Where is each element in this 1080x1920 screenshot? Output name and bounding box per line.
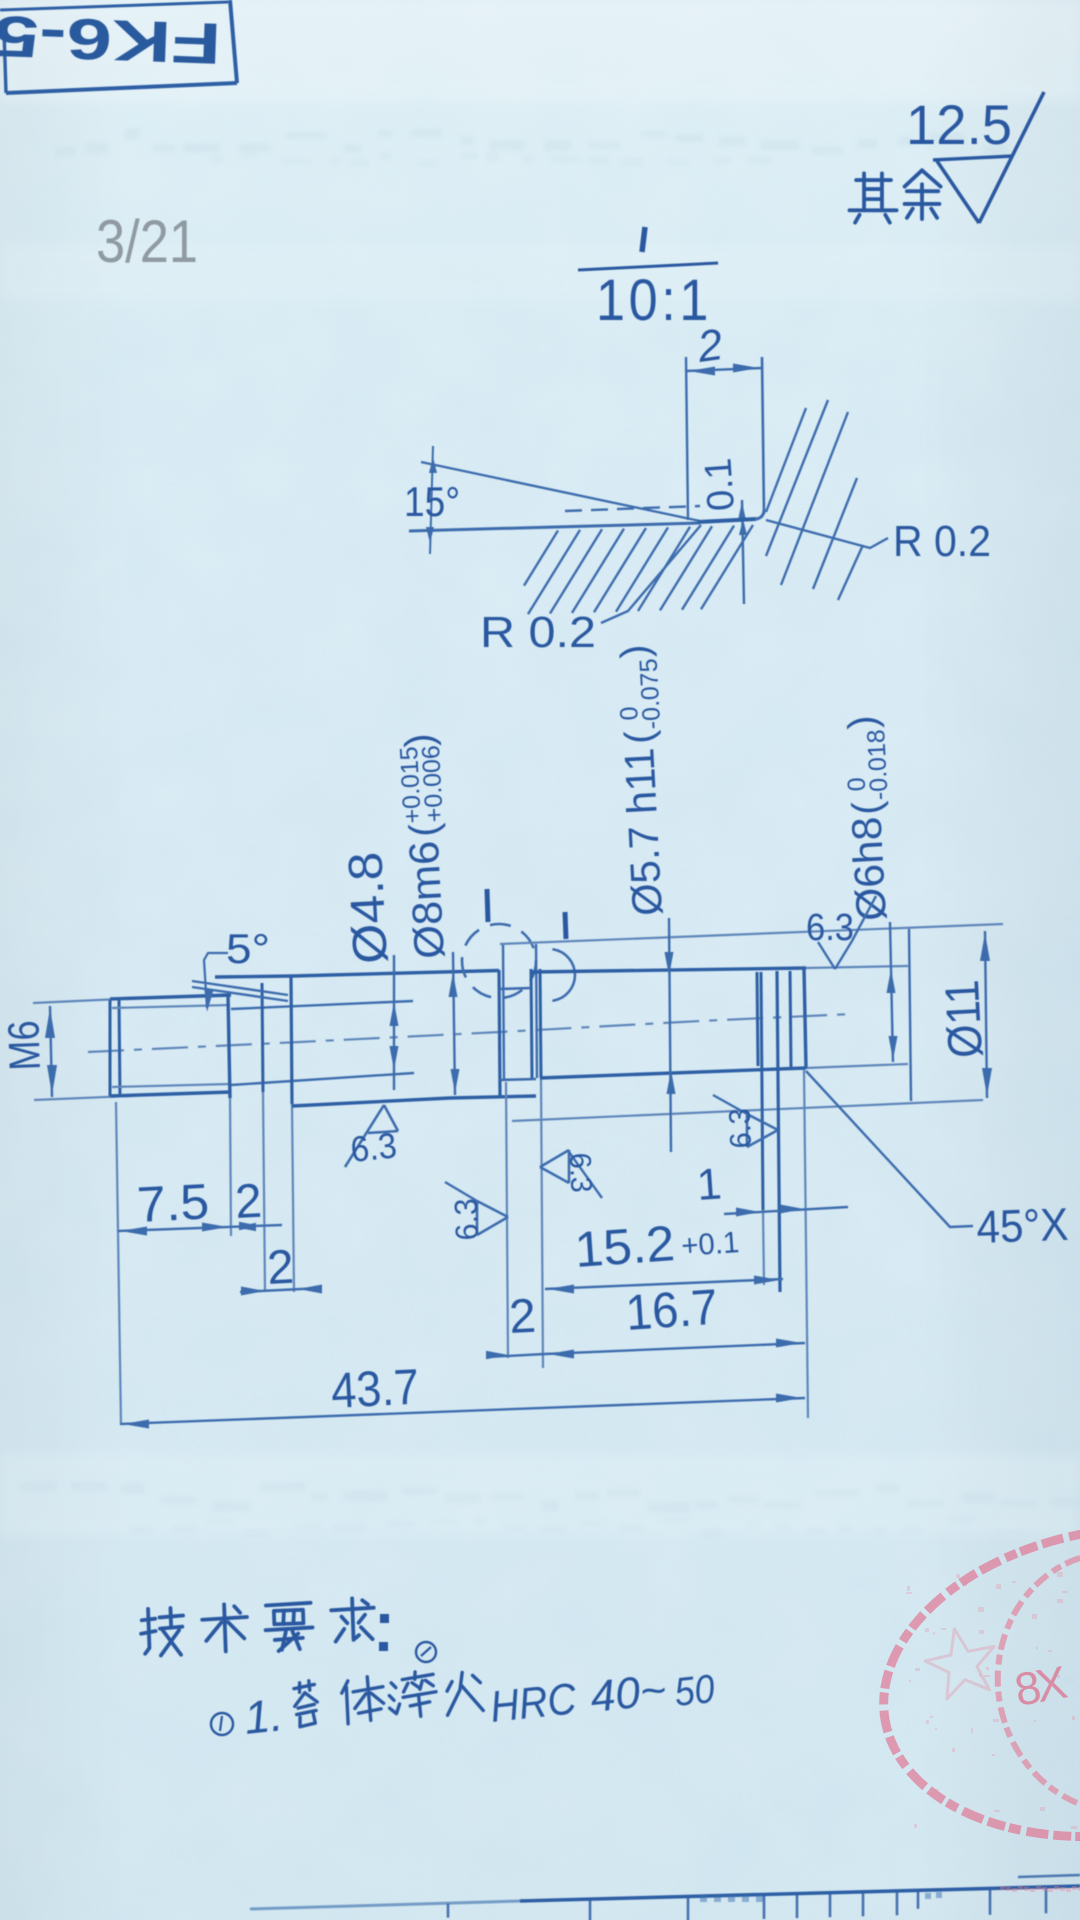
- svg-text:6.3: 6.3: [349, 1124, 399, 1170]
- surface finish general symbol: [933, 156, 1013, 160]
- svg-text:6.3: 6.3: [448, 1198, 485, 1241]
- groove A left ext down: [506, 1082, 508, 1358]
- detail hatch upper right: [766, 408, 806, 512]
- section line x292 + ext: [291, 977, 292, 1104]
- surface mark 6.3 under Ø8: [345, 1105, 384, 1167]
- svg-text:Ø5.7 h11: Ø5.7 h11: [615, 747, 671, 917]
- svg-text:6.3: 6.3: [724, 1108, 758, 1149]
- svg-text:45°X: 45°X: [976, 1198, 1070, 1253]
- svg-text:+0.1: +0.1: [680, 1226, 740, 1263]
- svg-text:-0.018: -0.018: [862, 729, 894, 801]
- text qiyu (rest): [849, 173, 896, 222]
- detail R corner: [756, 511, 764, 519]
- detail dim 2 line: [686, 368, 762, 371]
- title block short right line: [1018, 1875, 1080, 1877]
- svg-text:): ): [613, 644, 658, 660]
- taper 5deg line lower: [192, 987, 288, 1001]
- svg-text:16.7: 16.7: [624, 1279, 720, 1341]
- shaft bottom ext right: [806, 1064, 908, 1068]
- detail tick I first: [487, 889, 488, 922]
- svg-text:50: 50: [672, 1667, 716, 1715]
- detail left surface line: [409, 523, 700, 531]
- svg-text:2: 2: [234, 1175, 263, 1229]
- undercut bottom line + ext: [231, 1073, 414, 1085]
- svg-text:12.5: 12.5: [906, 93, 1012, 156]
- M6 ext line top: [33, 999, 120, 1003]
- detail tick I second: [565, 912, 566, 939]
- circled mark 2: [416, 1642, 436, 1662]
- Ø11 top ext line: [500, 924, 1003, 944]
- detail label I: [642, 227, 645, 252]
- detail groove flat bottom: [698, 519, 756, 522]
- section line x262 + ext: [262, 983, 263, 1092]
- detail ext line right / step face: [762, 357, 764, 514]
- Ø5.7 dim line: [669, 918, 671, 1152]
- detail dashed original surface: [565, 506, 700, 511]
- faint bleed-through row middle: [20, 1482, 1080, 1538]
- title block tiny text: [700, 1892, 942, 1902]
- title block top line: [250, 1901, 520, 1909]
- svg-text:6.3: 6.3: [806, 907, 854, 949]
- svg-text:R 0.2: R 0.2: [893, 517, 991, 566]
- groove A right ext down: [540, 969, 541, 1078]
- shaft top ext right: [806, 966, 908, 968]
- circled mark 1: [211, 1713, 233, 1735]
- thread end cap lines: [109, 1000, 112, 1096]
- svg-text:15°: 15°: [404, 478, 460, 525]
- shaft top line Ø8 section: [215, 971, 499, 978]
- svg-text:2: 2: [508, 1290, 537, 1344]
- detail 15 deg sloped line: [421, 462, 700, 521]
- M6 dim line: [50, 1006, 52, 1097]
- svg-text:3/21: 3/21: [96, 208, 198, 275]
- taper 5deg line upper: [192, 981, 288, 995]
- 45 degree chamfer leader: [806, 1071, 973, 1227]
- groove cluster line b + ext: [761, 972, 763, 1210]
- svg-text:7.5: 7.5: [136, 1173, 211, 1233]
- svg-text:8X: 8X: [1011, 1656, 1071, 1716]
- Ø8m6 dim line: [453, 952, 455, 1095]
- faint bleed-through row top: [55, 128, 1007, 167]
- svg-text:HRC: HRC: [488, 1674, 580, 1732]
- svg-text:5°: 5°: [226, 925, 270, 972]
- solid arc detail second: [554, 949, 575, 1000]
- red stamp speckles: [906, 1572, 1077, 1829]
- tech requirements heading: [140, 1608, 184, 1656]
- shaft top line right section: [532, 968, 806, 972]
- Ø11 dim line: [985, 931, 987, 1098]
- detail leader R 0.2 right: [766, 520, 888, 548]
- thread root top: [112, 1005, 230, 1008]
- dim 2 groove line: [487, 1354, 545, 1357]
- undercut top line + ext: [231, 1001, 413, 1009]
- svg-text:1: 1: [695, 1159, 723, 1210]
- 5 deg leader: [204, 953, 228, 1008]
- shaft centerline: [88, 1014, 852, 1052]
- svg-text:Ø4.8: Ø4.8: [339, 851, 398, 966]
- Ø8m6 tolerance text (rotated): [394, 732, 456, 960]
- M6 ext line bottom: [34, 1096, 131, 1100]
- phantom bore side line: [909, 929, 911, 1101]
- surface mark 6.3 left-pointing: [540, 1150, 569, 1167]
- svg-text:-0.075: -0.075: [635, 658, 667, 730]
- red stamp ellipse: [861, 1495, 1080, 1869]
- shaft bottom line Ø8 section: [292, 1096, 536, 1106]
- shaft bottom line right section: [540, 1068, 806, 1078]
- groove cluster line a: [757, 972, 758, 1066]
- groove cluster line c + ext: [777, 971, 780, 1292]
- red stamp bottom arc marks: [1000, 1886, 1080, 1892]
- svg-text:40~: 40~: [588, 1665, 669, 1722]
- thread root bottom: [112, 1084, 230, 1087]
- Ø4.8 dim line: [393, 955, 395, 1090]
- detail angle dim ticks: [430, 446, 433, 554]
- svg-text:1.: 1.: [242, 1688, 286, 1744]
- svg-text:Ø8m6: Ø8m6: [400, 840, 453, 960]
- left ext line down for 7.5 and 43.7: [116, 1102, 118, 1232]
- thread crest top: [110, 995, 231, 999]
- detail hatch lower left: [524, 531, 558, 586]
- svg-text:): ): [397, 733, 442, 749]
- dim 15.2 line: [545, 1279, 783, 1289]
- detail ext line left: [686, 357, 688, 520]
- thread end line + ext: [228, 995, 230, 1098]
- groove A wall right ext up: [536, 944, 537, 1078]
- dim 7.5 line: [118, 1225, 282, 1231]
- groove A floor top: [499, 988, 531, 989]
- svg-text:R 0.2: R 0.2: [480, 608, 596, 657]
- title box top-left: [4, 30, 6, 93]
- dim 16.7 line: [545, 1343, 805, 1354]
- dim 2 second line: [240, 1288, 322, 1292]
- groove cluster line d: [790, 971, 791, 1067]
- dim 43.7 line: [120, 1398, 805, 1424]
- detail leader R 0.2 left: [601, 525, 701, 623]
- svg-text:15.2: 15.2: [573, 1215, 677, 1278]
- groove A floor bottom: [499, 1079, 536, 1080]
- surface mark 6.3 mid (pointing right): [747, 1114, 778, 1130]
- groove A wall right: [531, 969, 532, 1078]
- dim 1 line: [724, 1207, 848, 1214]
- svg-text:+0.006: +0.006: [417, 744, 449, 823]
- Ø6h8 tolerance text (rotated): [837, 714, 900, 922]
- svg-text:Ø11: Ø11: [936, 979, 993, 1060]
- svg-text:FK6-5: FK6-5: [0, 3, 222, 76]
- thread crest bottom: [110, 1092, 231, 1096]
- surface mark 6.3 right-pointing second: [477, 1201, 508, 1217]
- shaft end ext down: [804, 1070, 808, 1418]
- detail circle I (dashed): [462, 924, 536, 998]
- Ø6h8 dim line: [890, 922, 893, 1062]
- detail label fraction bar: [578, 263, 718, 270]
- title block verticals: [447, 1904, 450, 1918]
- svg-text:6.3: 6.3: [563, 1152, 597, 1193]
- Ø5.7 tolerance text (rotated): [610, 643, 676, 917]
- detail dim 0.1 leader: [742, 500, 744, 604]
- Ø11 bottom ext line: [512, 1100, 983, 1121]
- shaft end cap right: [804, 968, 806, 1068]
- svg-text:2: 2: [266, 1241, 295, 1295]
- red stamp star: [925, 1629, 994, 1699]
- groove A wall left: [499, 970, 500, 1096]
- svg-text:43.7: 43.7: [330, 1358, 421, 1419]
- svg-text:M6: M6: [0, 1020, 50, 1072]
- groove A wall left ext up: [503, 944, 504, 1080]
- svg-text:): ): [840, 714, 885, 730]
- svg-text:0.1: 0.1: [697, 457, 743, 513]
